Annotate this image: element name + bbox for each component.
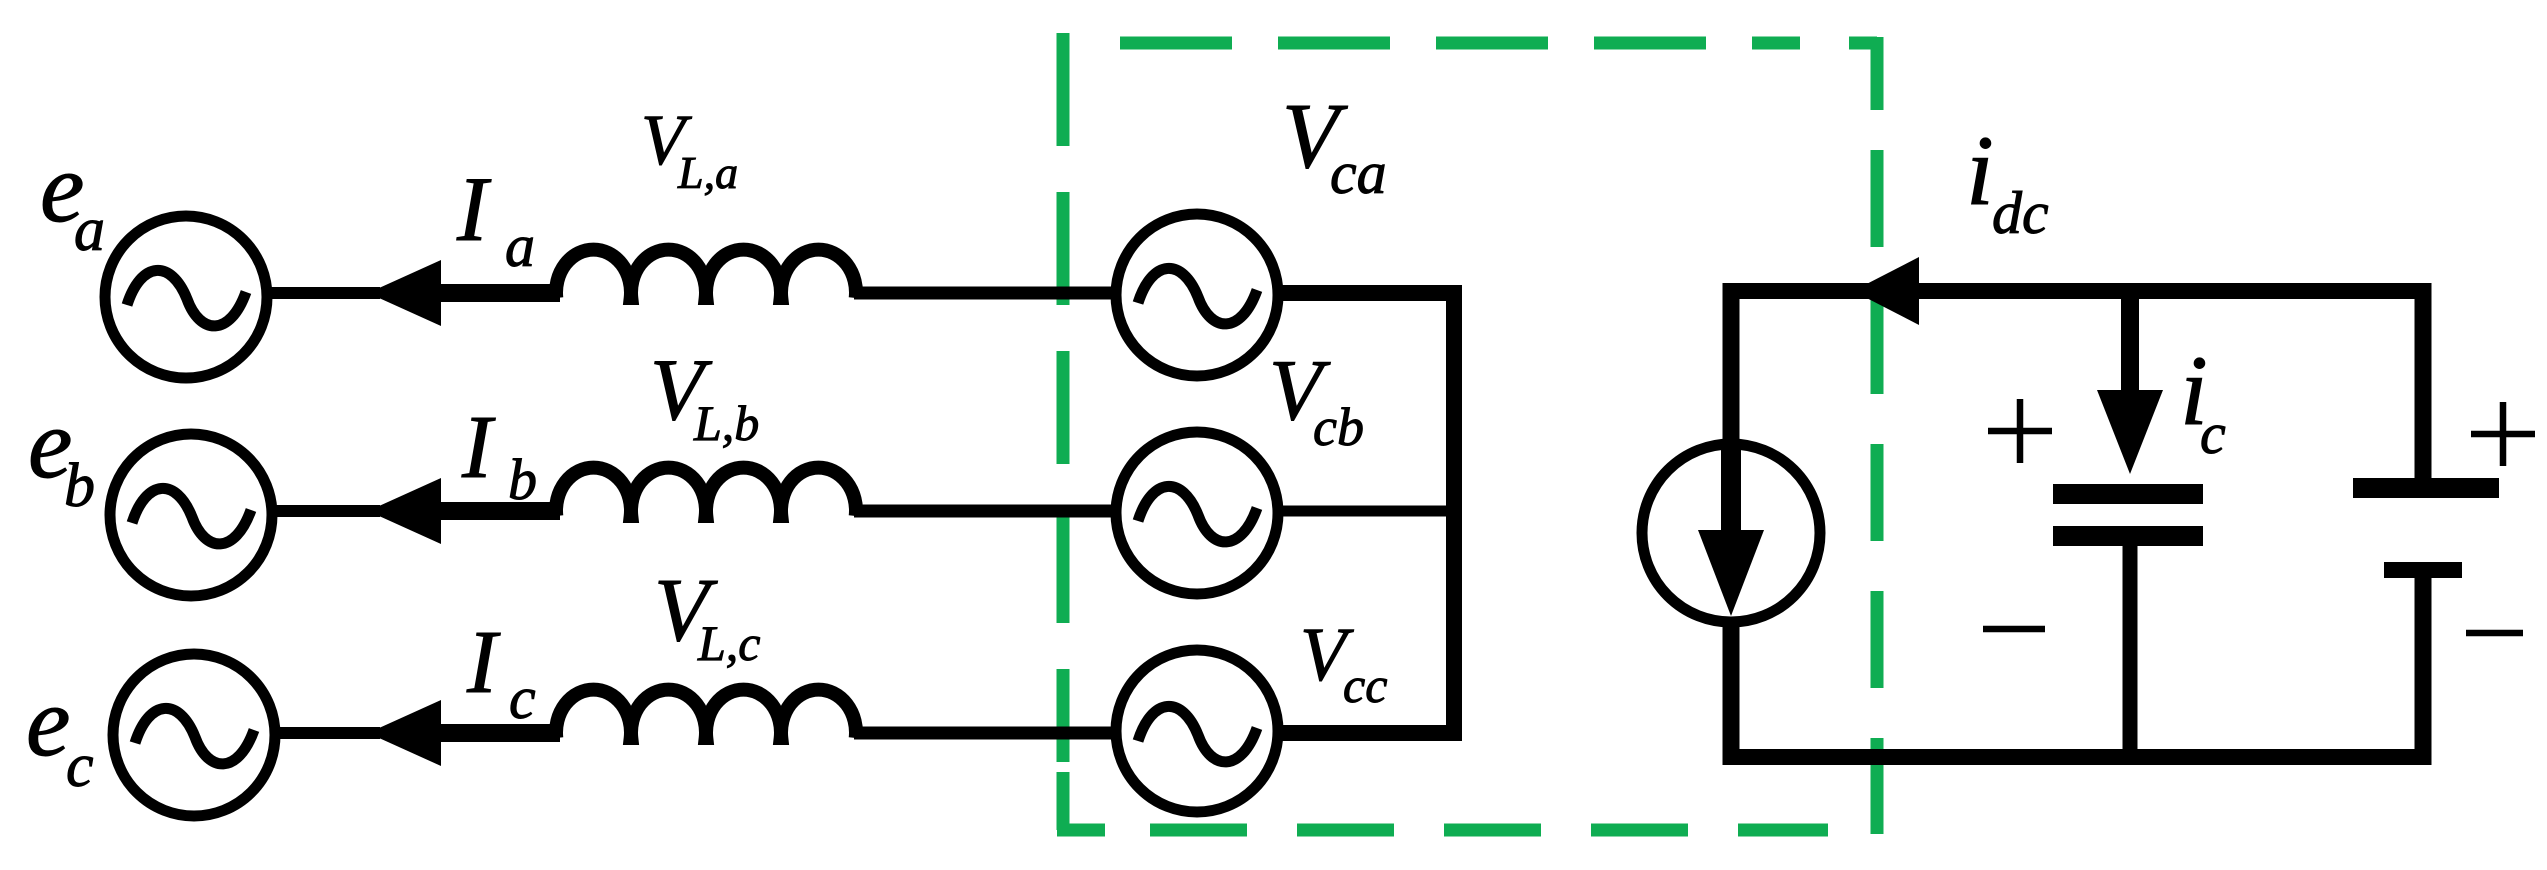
inductor Lc (556, 690, 856, 738)
wire Vca to bus (1280, 285, 1462, 301)
wire arrow to inductor (thick) (436, 284, 560, 302)
svg-text:I: I (461, 398, 496, 497)
capacitor C plate 2 (2053, 526, 2203, 546)
label Vcb (1269, 341, 1364, 457)
battery plate short (2384, 562, 2462, 578)
capacitor C plate 1 (2053, 484, 2203, 504)
battery plate long (2353, 478, 2499, 498)
bottom-left corner (1057, 772, 1105, 830)
svg-text:c: c (2200, 401, 2226, 466)
label ec (26, 666, 94, 800)
minus sign near battery (2466, 630, 2523, 637)
svg-text:L,b: L,b (693, 395, 759, 451)
ac source Vca (1116, 214, 1278, 376)
inductor Lb (556, 468, 856, 516)
wire Vcb to bus (1280, 506, 1462, 517)
svg-text:e: e (26, 666, 70, 777)
current arrow Ib (368, 478, 441, 544)
label idc (1966, 115, 2049, 246)
wire inductor to Vcc (854, 727, 1114, 740)
svg-text:b: b (64, 452, 95, 520)
capacitor current arrow head (2097, 390, 2163, 474)
label Ic (466, 613, 536, 731)
current source arrow head (1698, 530, 1764, 616)
svg-text:I: I (456, 158, 492, 260)
svg-text:a: a (505, 213, 535, 279)
svg-text:c: c (509, 665, 536, 731)
capacitor lower wire (2123, 546, 2138, 765)
svg-text:L,c: L,c (697, 615, 761, 671)
wire ec to arrow (276, 727, 380, 739)
bottom edge (1150, 824, 1828, 837)
top-right corner (1849, 37, 1877, 110)
label Vca (1282, 85, 1387, 206)
current source vertical bottom (1723, 624, 1740, 765)
current source U1 (1642, 444, 1820, 622)
label VLa (641, 100, 738, 198)
wire inductor to Vcb (854, 505, 1114, 518)
converter dashed box (green) (1057, 33, 1877, 834)
svg-text:a: a (74, 196, 105, 264)
svg-text:cb: cb (1313, 397, 1364, 457)
svg-text:cc: cc (1343, 657, 1387, 713)
svg-text:L,a: L,a (677, 147, 738, 198)
wire Vcc to bus (1280, 725, 1462, 741)
wire arrow to inductor (thick) (436, 724, 560, 742)
idc arrow (1853, 257, 1919, 325)
label ea (40, 132, 105, 264)
top edge (1120, 37, 1800, 50)
bus node (1446, 285, 1462, 741)
wire eb to arrow (273, 505, 380, 517)
svg-text:I: I (466, 613, 501, 712)
wire ea to arrow (268, 287, 380, 299)
label Vcc (1300, 613, 1387, 713)
svg-text:b: b (508, 447, 537, 512)
capacitor current arrow shaft (2121, 291, 2139, 393)
top dc wire (1723, 283, 2431, 299)
wire arrow to inductor (thick) (436, 502, 560, 520)
current source arrow shaft (1721, 442, 1741, 537)
current arrow Ic (368, 700, 441, 766)
minus sign near capacitor (1983, 626, 2045, 633)
label Ib (461, 398, 537, 512)
label Ia (456, 158, 535, 279)
label VLc (654, 561, 761, 671)
ac source Vcb (1116, 432, 1278, 594)
current source vertical top (1723, 283, 1740, 442)
left edge (1057, 33, 1070, 762)
battery vertical bottom (2415, 570, 2432, 765)
current arrow Ia (368, 260, 441, 326)
inductor La (556, 250, 856, 298)
wire inductor to Vca (854, 287, 1114, 300)
ac source ea (105, 216, 267, 378)
battery vertical top (2415, 283, 2432, 488)
bottom dc wire (1723, 749, 2431, 765)
plus sign near battery (2471, 402, 2535, 466)
ac source Vcc (1116, 650, 1278, 812)
svg-text:dc: dc (1992, 180, 2049, 246)
svg-text:c: c (66, 732, 94, 800)
right edge (1871, 150, 1884, 834)
svg-text:ca: ca (1330, 140, 1387, 206)
ac source eb (110, 434, 272, 596)
plus sign near capacitor (1988, 399, 2052, 463)
svg-text:i: i (1966, 115, 1994, 226)
label ic (2180, 335, 2226, 466)
label eb (28, 388, 95, 520)
label VLb (650, 342, 759, 451)
ac source ec (113, 654, 275, 816)
